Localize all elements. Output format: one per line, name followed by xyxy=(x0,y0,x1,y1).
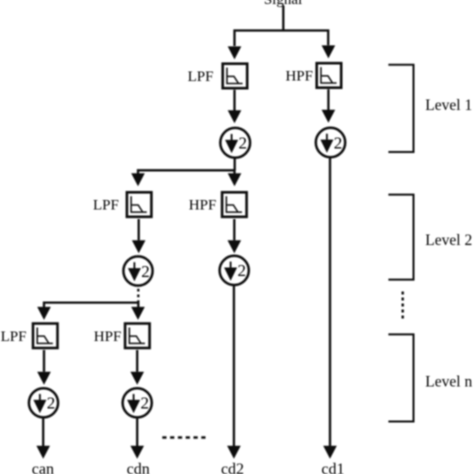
svg-text:2: 2 xyxy=(334,133,343,152)
wire level-n split bus xyxy=(44,303,138,308)
downsampler by 2, level-1 highpass xyxy=(316,128,345,157)
downsampler by 2, level-2 lowpass xyxy=(123,256,152,285)
filter HPF level-1 xyxy=(317,63,342,87)
wire to output can xyxy=(36,418,50,459)
wire level-2 low output down (dotted) xyxy=(137,289,139,303)
svg-text:HPF: HPF xyxy=(94,329,122,345)
svg-text:2: 2 xyxy=(47,394,56,413)
svg-text:LPF: LPF xyxy=(93,198,119,214)
filter LPF level-2 xyxy=(127,192,151,217)
svg-text:2: 2 xyxy=(239,134,248,153)
svg-text:HPF: HPF xyxy=(285,69,313,85)
bracket level 2 xyxy=(388,195,413,280)
arrowhead into LPF level-2 xyxy=(131,173,145,186)
downsampler by 2, level-1 lowpass xyxy=(220,128,250,158)
arrowhead into HPF level-n xyxy=(131,307,145,320)
arrowhead into HPF level-1 xyxy=(322,45,336,58)
downsampler by 2, level-n highpass xyxy=(123,388,152,417)
wire LPF level-n to downsampler xyxy=(37,350,51,385)
wire to output cd1 xyxy=(323,157,337,458)
arrowhead into LPF level-n xyxy=(37,307,51,320)
svg-text:2: 2 xyxy=(141,394,150,413)
svg-text:2: 2 xyxy=(141,262,150,281)
svg-text:2: 2 xyxy=(238,261,247,280)
wire level-1 split bus xyxy=(235,31,329,47)
svg-text:Level 1: Level 1 xyxy=(425,97,472,114)
svg-text:cd1: cd1 xyxy=(321,461,344,474)
wire LPF level-1 to downsampler xyxy=(228,90,242,124)
filter HPF level-n xyxy=(125,324,150,349)
svg-text:LPF: LPF xyxy=(1,329,27,345)
wire HPF level-1 to downsampler xyxy=(322,89,336,123)
wire LPF level-2 to downsampler xyxy=(132,219,146,253)
filter LPF level-1 xyxy=(223,64,248,88)
svg-text:can: can xyxy=(32,461,54,474)
wire HPF level-n to downsampler xyxy=(130,350,144,385)
svg-text:LPF: LPF xyxy=(188,69,214,85)
arrowhead into HPF level-2 xyxy=(228,173,242,186)
svg-text:cdn: cdn xyxy=(127,461,150,474)
wire from Signal down xyxy=(282,6,284,31)
bracket level n xyxy=(388,334,413,421)
wire level-1 low output down xyxy=(234,158,236,171)
svg-text:HPF: HPF xyxy=(189,198,217,214)
wire HPF level-2 to downsampler xyxy=(228,219,242,253)
svg-text:Level 2: Level 2 xyxy=(425,232,472,249)
ellipsis between brackets xyxy=(402,292,404,322)
svg-text:cd2: cd2 xyxy=(221,461,244,474)
downsampler by 2, level-n lowpass xyxy=(29,388,58,417)
wire to output cd2 xyxy=(227,285,241,459)
arrowhead into LPF level-1 xyxy=(228,46,242,59)
filter HPF level-2 xyxy=(222,192,247,217)
svg-text:Level n: Level n xyxy=(425,374,472,391)
wire level-2 split bus xyxy=(138,170,235,174)
filter LPF level-n xyxy=(33,324,58,349)
wire to output cdn xyxy=(130,418,144,459)
ellipsis between cdn and cd2 xyxy=(162,436,207,439)
bracket level 1 xyxy=(388,65,413,152)
downsampler by 2, level-2 highpass xyxy=(220,256,249,285)
